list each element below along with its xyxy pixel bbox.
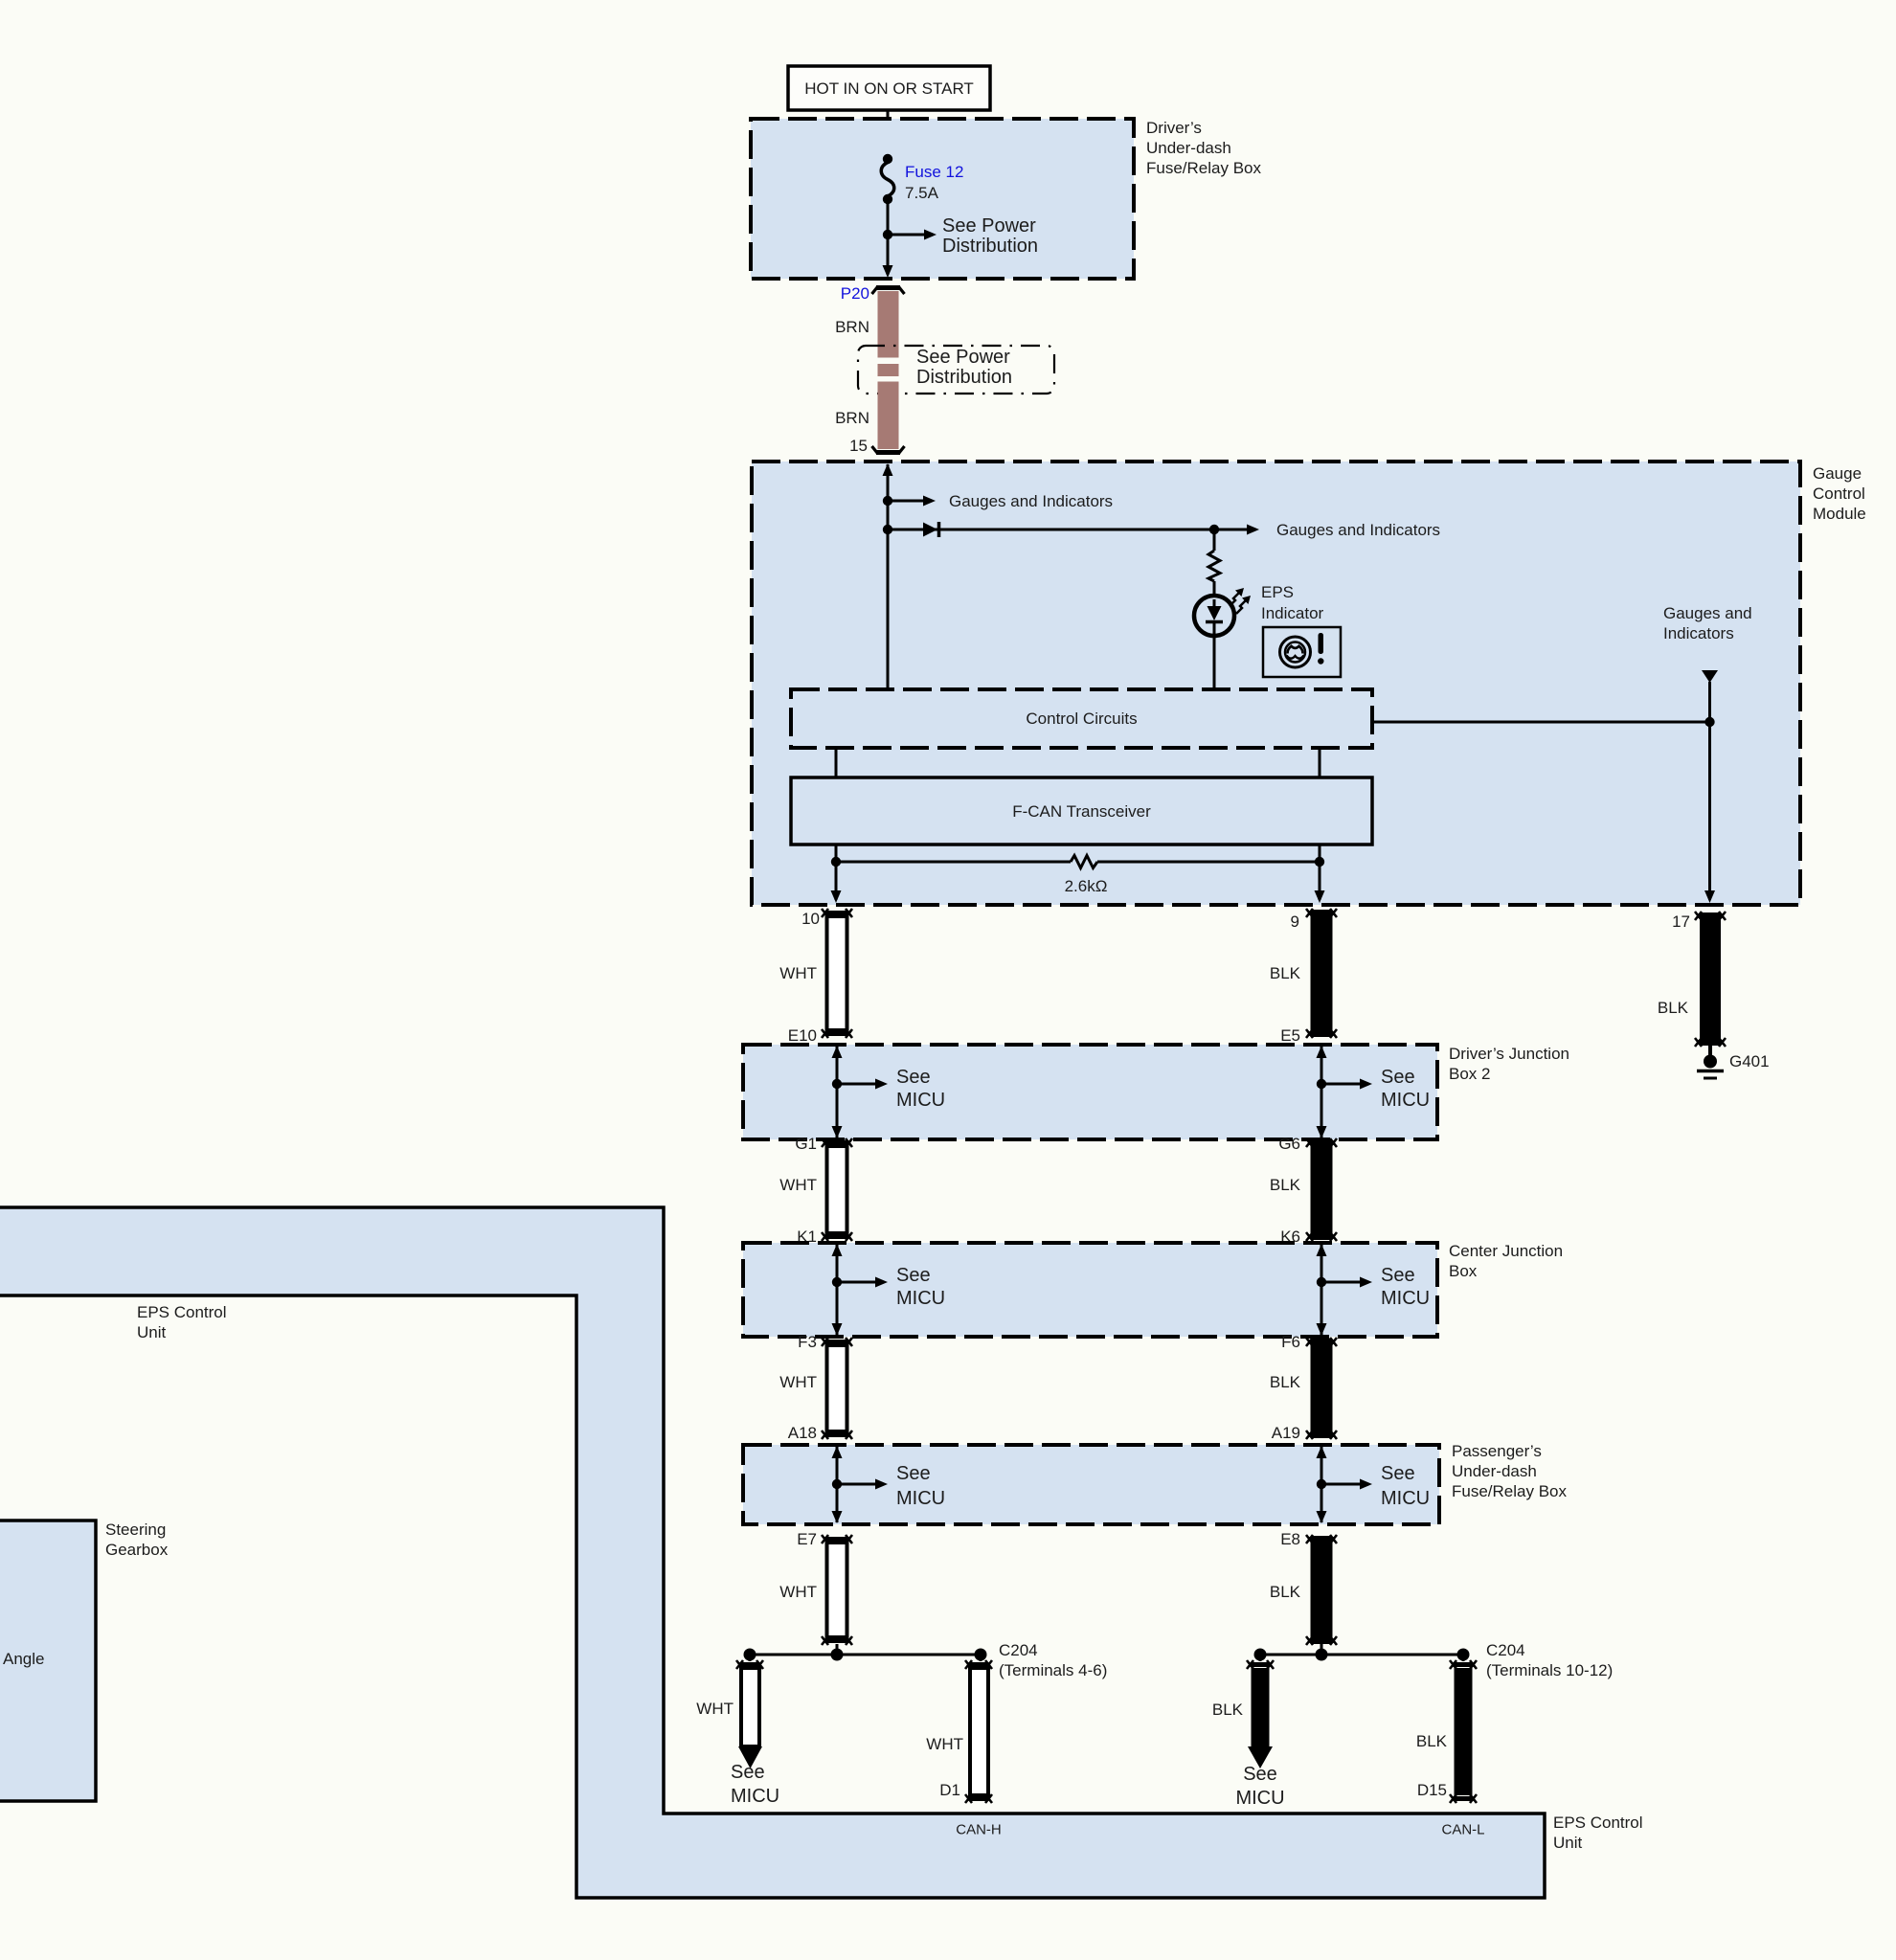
svg-text:Passenger’s: Passenger’s xyxy=(1452,1442,1542,1460)
label CAN-L xyxy=(1441,1821,1484,1837)
svg-text:WHT: WHT xyxy=(779,1373,817,1391)
svg-text:G401: G401 xyxy=(1729,1052,1770,1070)
svg-text:CAN-H: CAN-H xyxy=(956,1821,1002,1837)
connector terminal 15 xyxy=(849,437,904,455)
svg-text:See: See xyxy=(1381,1067,1415,1088)
svg-text:F3: F3 xyxy=(798,1333,817,1351)
junction box 2 left MICU node xyxy=(832,1046,946,1138)
svg-text:MICU: MICU xyxy=(1381,1288,1430,1309)
svg-text:See: See xyxy=(1243,1764,1277,1785)
svg-text:E8: E8 xyxy=(1280,1530,1300,1548)
svg-text:BLK: BLK xyxy=(1270,964,1301,982)
connector P20 xyxy=(841,284,905,303)
wire BLK to MICU (CAN-L) xyxy=(1212,1655,1285,1809)
svg-text:MICU: MICU xyxy=(896,1288,945,1309)
svg-text:BLK: BLK xyxy=(1270,1176,1301,1194)
svg-text:HOT IN ON OR START: HOT IN ON OR START xyxy=(804,79,974,98)
EPS warning icon box xyxy=(1263,627,1341,677)
passenger's under-dash fuse/relay box xyxy=(743,1445,1439,1524)
svg-text:Gauges and Indicators: Gauges and Indicators xyxy=(1276,521,1440,539)
svg-text:Driver’s: Driver’s xyxy=(1146,119,1202,137)
junction box 2 right MICU node xyxy=(1317,1046,1431,1138)
label EPS control unit (bottom right) xyxy=(1553,1814,1643,1852)
branch 2 wire with diode xyxy=(883,521,1440,539)
svg-text:BLK: BLK xyxy=(1416,1732,1448,1750)
svg-text:D15: D15 xyxy=(1417,1781,1447,1799)
svg-text:Driver’s Junction: Driver’s Junction xyxy=(1449,1045,1569,1063)
label steering gearbox xyxy=(105,1521,169,1559)
svg-text:See: See xyxy=(896,1463,931,1484)
svg-text:C204: C204 xyxy=(1486,1641,1525,1659)
svg-text:Unit: Unit xyxy=(1553,1834,1583,1852)
svg-text:A19: A19 xyxy=(1272,1424,1300,1442)
CAN-H rail C204 xyxy=(744,1641,1108,1679)
svg-text:9: 9 xyxy=(1291,912,1299,931)
svg-text:Box 2: Box 2 xyxy=(1449,1065,1490,1083)
svg-text:Gearbox: Gearbox xyxy=(105,1541,169,1559)
connector pin 10 xyxy=(779,909,852,1045)
wire WHT to MICU (CAN-H) xyxy=(696,1655,779,1807)
svg-text:Fuse 12: Fuse 12 xyxy=(905,163,963,181)
control circuits box xyxy=(791,689,1372,748)
label center junction box xyxy=(1449,1242,1563,1280)
svg-text:MICU: MICU xyxy=(896,1090,945,1111)
svg-text:E5: E5 xyxy=(1280,1026,1300,1045)
driver's junction box 2 xyxy=(743,1045,1437,1139)
wire control circuits to F-CAN left xyxy=(835,748,838,777)
svg-text:Gauge: Gauge xyxy=(1813,464,1862,483)
svg-text:Distribution: Distribution xyxy=(916,367,1012,388)
svg-text:Box: Box xyxy=(1449,1262,1478,1280)
wire BRN interrupt segment xyxy=(878,364,899,376)
connector pin 17 xyxy=(1658,912,1726,1047)
svg-text:P20: P20 xyxy=(841,284,869,303)
label gauge control module xyxy=(1813,464,1866,523)
svg-text:(Terminals 4-6): (Terminals 4-6) xyxy=(999,1661,1107,1679)
power source label HOT IN ON OR START xyxy=(788,66,990,110)
svg-text:F-CAN Transceiver: F-CAN Transceiver xyxy=(1012,802,1151,821)
label driver's under-dash fuse/relay box xyxy=(1146,119,1261,177)
passenger box right MICU node xyxy=(1317,1446,1431,1523)
label angle (steering gearbox) xyxy=(3,1650,44,1668)
svg-text:EPS Control: EPS Control xyxy=(137,1303,227,1321)
passenger box left MICU node xyxy=(832,1446,946,1523)
wire BLK D15 to EPS control unit xyxy=(1416,1655,1477,1803)
connector G1-K1 WHT xyxy=(779,1135,852,1246)
svg-text:MICU: MICU xyxy=(1381,1488,1430,1509)
center junction box xyxy=(743,1243,1437,1337)
connector E7 WHT xyxy=(779,1530,852,1645)
center junction box right MICU node xyxy=(1317,1244,1431,1336)
svg-text:C204: C204 xyxy=(999,1641,1038,1659)
svg-text:(Terminals 10-12): (Terminals 10-12) xyxy=(1486,1661,1613,1679)
svg-text:See Power: See Power xyxy=(916,347,1010,368)
connector pin 9 xyxy=(1270,909,1337,1045)
svg-text:2.6kΩ: 2.6kΩ xyxy=(1065,877,1108,895)
label passenger's under-dash fuse/relay box xyxy=(1452,1442,1567,1500)
svg-text:E10: E10 xyxy=(788,1026,817,1045)
branch arrow to See Power Distribution xyxy=(883,230,937,240)
svg-text:Gauges and: Gauges and xyxy=(1663,604,1752,622)
svg-text:Fuse/Relay Box: Fuse/Relay Box xyxy=(1146,159,1261,177)
svg-text:See: See xyxy=(1381,1463,1415,1484)
wire right gauges to pin 17 xyxy=(1702,670,1718,903)
wire E8 to CAN-L rail xyxy=(1320,1644,1323,1655)
svg-text:Fuse/Relay Box: Fuse/Relay Box xyxy=(1452,1482,1567,1500)
svg-text:G1: G1 xyxy=(795,1135,817,1153)
svg-text:WHT: WHT xyxy=(779,1176,817,1194)
svg-text:See: See xyxy=(896,1067,931,1088)
label gauges and indicators (right) xyxy=(1663,604,1752,642)
svg-text:MICU: MICU xyxy=(1235,1788,1284,1809)
svg-text:Center Junction: Center Junction xyxy=(1449,1242,1563,1260)
see power distribution dash-dot box xyxy=(858,346,1054,394)
svg-text:See: See xyxy=(1381,1265,1415,1286)
connector G6-K6 BLK xyxy=(1270,1135,1337,1246)
LED EPS indicator xyxy=(1194,588,1251,689)
svg-text:Control Circuits: Control Circuits xyxy=(1026,710,1137,728)
label CAN-H xyxy=(956,1821,1002,1837)
resistor 2.6k termination xyxy=(831,856,1324,896)
label See Power Distribution (fuse box) xyxy=(942,215,1038,257)
wire F-CAN to pin 9 xyxy=(1315,845,1325,903)
svg-text:F6: F6 xyxy=(1281,1333,1300,1351)
gauge control module box xyxy=(752,462,1800,905)
svg-text:MICU: MICU xyxy=(731,1786,779,1807)
svg-text:D1: D1 xyxy=(939,1781,960,1799)
ground G401 xyxy=(1697,1046,1770,1078)
svg-text:Module: Module xyxy=(1813,505,1866,523)
svg-text:BLK: BLK xyxy=(1658,999,1689,1017)
connector F6-A19 BLK xyxy=(1270,1333,1337,1442)
svg-text:WHT: WHT xyxy=(779,964,817,982)
branch 1 gauges and indicators xyxy=(883,492,1113,510)
connector F3-A18 WHT xyxy=(779,1333,852,1442)
fuse F12 7.5A xyxy=(881,154,963,204)
center junction box left MICU node xyxy=(832,1244,946,1336)
label EPS Indicator xyxy=(1261,583,1324,622)
CAN-L rail C204 xyxy=(1254,1641,1614,1679)
label EPS control unit (left) xyxy=(137,1303,227,1341)
svg-text:G6: G6 xyxy=(1278,1135,1300,1153)
svg-text:MICU: MICU xyxy=(1381,1090,1430,1111)
svg-text:A18: A18 xyxy=(788,1424,817,1442)
resistor (EPS indicator dropping resistor) xyxy=(1208,529,1220,597)
svg-text:Indicators: Indicators xyxy=(1663,624,1734,642)
svg-text:Indicator: Indicator xyxy=(1261,604,1324,622)
wire E7 to CAN-H rail xyxy=(836,1644,839,1655)
wire from HOT IN ON OR START to Fuse 12 xyxy=(887,110,890,161)
svg-text:7.5A: 7.5A xyxy=(905,184,939,202)
svg-text:EPS: EPS xyxy=(1261,583,1294,601)
F-CAN transceiver box xyxy=(791,777,1372,845)
svg-text:WHT: WHT xyxy=(779,1583,817,1601)
svg-text:BLK: BLK xyxy=(1212,1701,1244,1719)
svg-text:Gauges and Indicators: Gauges and Indicators xyxy=(949,492,1113,510)
wire WHT D1 to EPS control unit xyxy=(926,1655,992,1803)
wire BRN upper segment xyxy=(835,291,898,358)
svg-text:Control: Control xyxy=(1813,484,1865,503)
svg-text:WHT: WHT xyxy=(926,1735,963,1753)
svg-text:See Power: See Power xyxy=(942,215,1036,237)
svg-text:BLK: BLK xyxy=(1270,1583,1301,1601)
svg-text:Unit: Unit xyxy=(137,1323,167,1341)
wire control circuits to node 17 xyxy=(1372,721,1710,724)
connector E8 BLK xyxy=(1270,1530,1337,1645)
svg-text:Under-dash: Under-dash xyxy=(1452,1462,1537,1480)
steering gearbox box xyxy=(0,1521,96,1801)
svg-text:BRN: BRN xyxy=(835,318,869,336)
svg-text:Distribution: Distribution xyxy=(942,236,1038,257)
svg-text:E7: E7 xyxy=(797,1530,817,1548)
wire terminal15 into module xyxy=(883,463,893,689)
wire F-CAN to pin 10 xyxy=(831,845,842,903)
driver's under-dash fuse/relay box xyxy=(751,119,1134,279)
svg-text:Steering: Steering xyxy=(105,1521,166,1539)
label driver's junction box 2 xyxy=(1449,1045,1569,1083)
svg-text:MICU: MICU xyxy=(896,1488,945,1509)
svg-text:See: See xyxy=(896,1265,931,1286)
svg-text:15: 15 xyxy=(849,437,868,455)
svg-text:WHT: WHT xyxy=(696,1700,734,1718)
svg-text:See: See xyxy=(731,1762,765,1783)
svg-text:10: 10 xyxy=(801,910,820,928)
svg-text:CAN-L: CAN-L xyxy=(1441,1821,1484,1837)
svg-text:BLK: BLK xyxy=(1270,1373,1301,1391)
EPS control unit band xyxy=(0,1207,1545,1898)
svg-text:17: 17 xyxy=(1672,912,1690,931)
wire fuse to P20 with branch xyxy=(883,199,893,278)
svg-text:BRN: BRN xyxy=(835,409,869,427)
svg-text:Angle: Angle xyxy=(3,1650,44,1668)
wire BRN lower segment xyxy=(835,382,898,450)
svg-text:EPS Control: EPS Control xyxy=(1553,1814,1643,1832)
svg-text:Under-dash: Under-dash xyxy=(1146,139,1231,157)
wire control circuits to F-CAN right xyxy=(1319,748,1321,777)
